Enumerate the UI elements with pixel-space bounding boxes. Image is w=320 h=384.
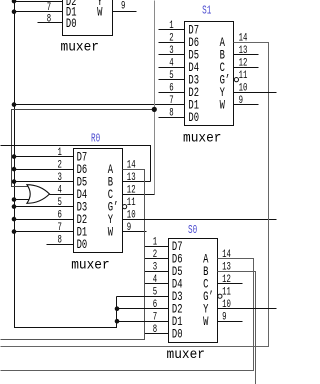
svg-text:D0: D0	[66, 17, 77, 31]
wire: OR gate output to R0 pin 4 (D4)	[50, 194, 74, 196]
svg-text:13: 13	[127, 172, 136, 184]
S0 pin 4 stub	[145, 283, 169, 285]
S0 pin 8 stub	[145, 333, 169, 335]
wire: left bus x=14 down, right at y=327.3, riser x=116 up to S0 pin 5 row	[15, 1, 117, 328]
svg-text:5: 5	[169, 70, 173, 82]
svg-text:13: 13	[239, 45, 248, 57]
svg-text:4: 4	[169, 58, 173, 70]
svg-text:D0: D0	[172, 328, 183, 342]
junction bus/U1-D1	[12, 9, 17, 14]
wire: bus to R0 pin 3	[15, 181, 74, 183]
U1 pin 9 (W) output line	[113, 11, 137, 13]
svg-text:1: 1	[169, 20, 173, 32]
U1 pin 8 (D0) stub	[38, 22, 63, 24]
svg-text:14: 14	[222, 249, 231, 261]
wire: left edge y=145.6 to R0 B output	[1, 146, 151, 182]
R0 pin 8 stub	[47, 244, 74, 246]
wire: riser x=117 to S0 pin 5	[117, 296, 169, 298]
wire: bus to R0 pin 5	[15, 206, 74, 208]
svg-text:muxer: muxer	[167, 347, 206, 363]
svg-text:2: 2	[169, 33, 173, 45]
svg-text:W: W	[97, 6, 103, 20]
junction riser/S0 pin 6	[115, 306, 120, 311]
junction bus/R0 pin 3	[12, 179, 17, 184]
S1 pin 6 stub	[159, 92, 185, 94]
wire: riser x=117 to S0 pin 7	[117, 321, 169, 323]
svg-text:W: W	[108, 226, 114, 240]
svg-text:D0: D0	[188, 111, 199, 125]
wire: S1 A output (pin 14) down x=268 to left edge y=346.4	[1, 43, 269, 347]
S1 pin 5 stub	[159, 79, 185, 81]
S0 pin 10 stub	[218, 308, 243, 310]
S0 pin 12 stub	[218, 283, 243, 285]
wire: R0 W output (pin 9) to x=144.7	[123, 231, 145, 233]
svg-text:6: 6	[153, 299, 157, 311]
svg-text:11: 11	[222, 287, 231, 299]
R0 pin 9 stub	[123, 231, 147, 233]
svg-text:9: 9	[121, 0, 125, 12]
svg-text:S1: S1	[202, 5, 211, 18]
wire: S1 net to OR gate input A (x=11.5 vertical)	[12, 110, 155, 187]
S0 pin 1 stub	[145, 246, 169, 248]
wire: bus to R0 pin 2	[15, 169, 74, 171]
S1 pin 9 stub	[234, 104, 259, 106]
S0 pin 13 stub	[218, 271, 243, 273]
junction bus/R0 pin 1	[12, 154, 17, 159]
R0 G-prime inversion bubble	[123, 205, 127, 209]
svg-text:1: 1	[58, 147, 62, 159]
svg-text:3: 3	[153, 262, 157, 274]
junction bus/OR-inB	[12, 197, 17, 202]
svg-text:2: 2	[153, 249, 157, 261]
svg-text:9: 9	[239, 95, 243, 107]
wire: bus to U1 D2 (pin 6)	[15, 1, 63, 3]
muxer S1: box	[185, 22, 234, 126]
junction bus/R0 pin 2	[12, 167, 17, 172]
svg-text:8: 8	[58, 235, 62, 247]
S1 pin 13 stub	[234, 54, 259, 56]
S0 pin 3 stub	[145, 271, 169, 273]
svg-text:muxer: muxer	[71, 258, 110, 274]
S1 pin 10 stub	[234, 92, 259, 94]
svg-text:muxer: muxer	[183, 131, 222, 147]
wire: bus to R0 pin 7	[15, 231, 74, 233]
S1 pin 1 stub	[159, 29, 185, 31]
svg-text:5: 5	[58, 197, 62, 209]
svg-text:R0: R0	[91, 133, 100, 146]
svg-text:muxer: muxer	[61, 39, 100, 55]
wire: vertical net x=154.3 (top edge to R0 C row)	[154, 1, 156, 195]
S0 G-prime inversion bubble	[218, 294, 222, 298]
svg-text:D0: D0	[77, 238, 88, 252]
wire: bus to U1 D1 (pin 7)	[15, 11, 63, 13]
svg-text:11: 11	[127, 197, 136, 209]
junction bus/U1-D2	[12, 0, 17, 3]
OR gate G1	[27, 185, 50, 204]
svg-text:7: 7	[47, 2, 51, 14]
junction riser/S0 pin 7	[115, 319, 120, 324]
svg-text:9: 9	[127, 222, 131, 234]
svg-text:7: 7	[169, 95, 173, 107]
wire: R0 B output (pin 13)	[123, 181, 151, 183]
wire: R0 Y output (pin 10) to right edge	[123, 219, 277, 221]
junction bus/R0 pin 5	[12, 204, 17, 209]
S1 pin 3 stub	[159, 54, 185, 56]
svg-text:8: 8	[169, 108, 173, 120]
wire: bus to R0 pin 6	[15, 219, 74, 221]
svg-text:W: W	[203, 315, 209, 329]
wire: R0 C output (pin 12) to x=154.3	[123, 194, 155, 196]
muxer R0: box	[74, 149, 123, 253]
junction bus/R0 pin 7	[12, 229, 17, 234]
svg-text:S0: S0	[188, 224, 197, 237]
wire: riser x=117 to S0 pin 6	[117, 308, 169, 310]
svg-text:3: 3	[58, 172, 62, 184]
svg-text:8: 8	[47, 14, 51, 26]
S1 pin 14 stub	[234, 42, 259, 44]
wire: bus to OR gate input B	[15, 199, 31, 201]
svg-text:4: 4	[153, 274, 157, 286]
wire: S0 A output (pin 14) down x=253.2 to left edge y=370.6	[1, 259, 254, 371]
junction x=154.3 / OR-inA wire	[152, 107, 157, 112]
svg-text:12: 12	[222, 274, 231, 286]
muxer U1 (top-left, clipped): box	[63, 0, 113, 36]
wire: S1 Y output (pin 10) to right edge	[234, 92, 277, 94]
svg-text:7: 7	[58, 222, 62, 234]
wire: bus to R0 pin 1	[15, 156, 74, 158]
svg-text:10: 10	[222, 299, 231, 311]
wire: R0 A output (pin 14) down x=145.1 to left edge y=340	[1, 170, 145, 340]
S1 pin 2 stub	[159, 42, 185, 44]
wire: S0 B output (pin 13) down x=255.8 to bottom edge	[218, 272, 256, 384]
S1 pin 8 stub	[159, 117, 185, 119]
S1 pin 4 stub	[159, 67, 185, 69]
svg-text:3: 3	[169, 45, 173, 57]
svg-text:W: W	[220, 99, 226, 113]
svg-text:12: 12	[239, 58, 248, 70]
S0 pin 2 stub	[145, 258, 169, 260]
S0 pin 9 stub	[218, 321, 243, 323]
junction bus/S1-D1	[12, 102, 17, 107]
R0 pin 12 stub	[123, 194, 147, 196]
wire: bus to S1 D1 (pin 7)	[15, 104, 185, 106]
S1 pin 12 stub	[234, 67, 259, 69]
junction bus/R0 pin 6	[12, 217, 17, 222]
svg-text:1: 1	[153, 237, 157, 249]
wire: S0 Y output (pin 10) to right edge	[218, 308, 277, 310]
S1 G-prime inversion bubble	[234, 78, 238, 82]
muxer S0: box	[169, 239, 218, 343]
svg-text:9: 9	[222, 312, 226, 324]
svg-text:8: 8	[153, 324, 157, 336]
svg-text:6: 6	[169, 83, 173, 95]
svg-text:11: 11	[239, 70, 248, 82]
